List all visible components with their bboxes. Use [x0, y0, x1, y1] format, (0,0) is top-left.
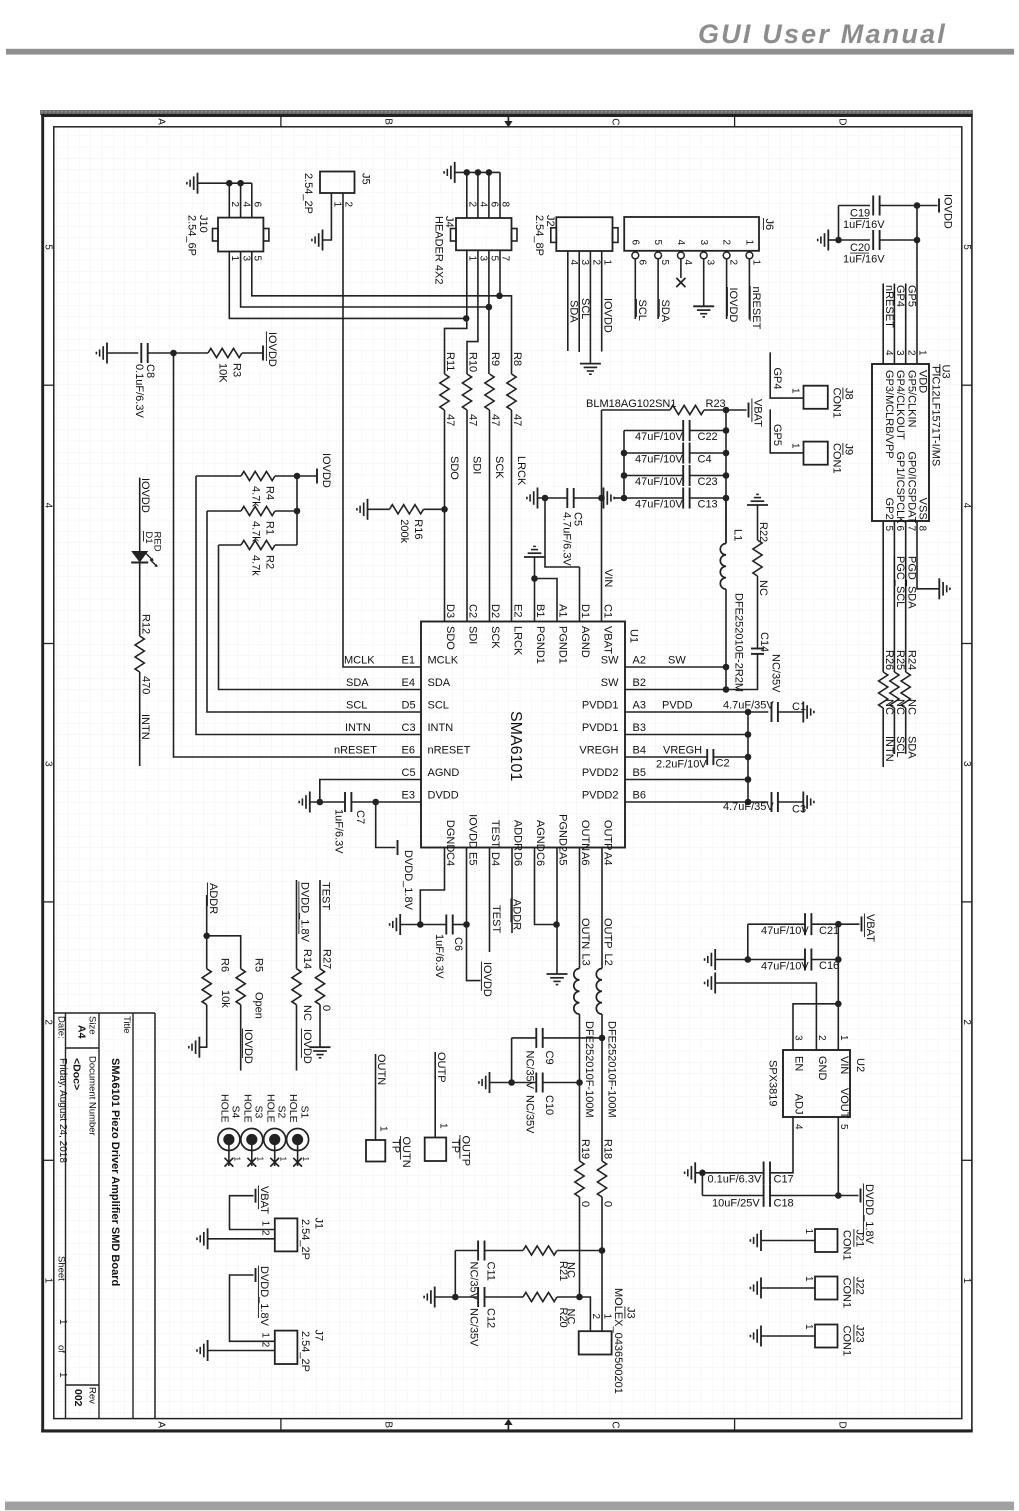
svg-text:OUTP: OUTP: [435, 1052, 447, 1083]
svg-text:DVDD_1.8V: DVDD_1.8V: [258, 1266, 270, 1327]
svg-text:2: 2: [816, 1035, 827, 1041]
svg-text:of: of: [56, 1345, 67, 1353]
ground at J23: [760, 1326, 762, 1347]
svg-text:B6: B6: [633, 790, 646, 802]
svg-text:1: 1: [803, 1229, 814, 1235]
svg-text:R9: R9: [489, 352, 501, 366]
svg-text:1: 1: [790, 443, 801, 449]
svg-text:B: B: [382, 1421, 393, 1428]
capacitor C6 1uF/6.3V: [420, 924, 446, 926]
wire R14 IOVDD stub: [296, 1005, 298, 1071]
resistor R19 0: [575, 1161, 584, 1197]
svg-text:3: 3: [961, 761, 972, 767]
svg-text:J10: J10: [197, 215, 209, 233]
background grid: [55, 128, 961, 1418]
svg-text:5: 5: [43, 244, 54, 250]
svg-text:C: C: [610, 1421, 621, 1428]
svg-text:PVDD: PVDD: [662, 700, 693, 712]
svg-text:NC: NC: [301, 1005, 313, 1021]
svg-text:INTN: INTN: [883, 736, 895, 762]
wire U3 pin2 GP5 stub: [905, 284, 907, 365]
mounting hole S1: [287, 1129, 309, 1151]
power flag DVDD_1.8V at VOUT: [838, 1195, 858, 1197]
svg-text:L3: L3: [580, 954, 592, 966]
svg-text:DVDD_1.8V: DVDD_1.8V: [402, 850, 414, 911]
ground right of C5: [603, 488, 605, 509]
wire nRESET net: [174, 353, 422, 757]
wire PGND2 A5 to ground: [556, 848, 558, 975]
svg-text:nRESET: nRESET: [334, 745, 377, 757]
svg-text:SDA: SDA: [659, 300, 671, 323]
svg-text:47: 47: [511, 414, 523, 426]
svg-text:1: 1: [57, 1319, 68, 1325]
svg-text:R14: R14: [301, 949, 313, 969]
svg-text:GP5/CLKIN: GP5/CLKIN: [905, 370, 917, 428]
wire IOVDD E5 stub: [467, 848, 481, 981]
wire U3 pin5 / R26: [882, 521, 884, 672]
svg-text:3: 3: [705, 260, 716, 266]
capacitor C23 47uF/10V: [624, 475, 683, 477]
svg-text:1: 1: [917, 350, 928, 356]
junctions C19/C20 right: [914, 202, 921, 209]
J6 pin circles: [632, 252, 639, 259]
resistor R23 BLM18AG102SN1: [602, 409, 671, 411]
svg-text:2.54_2P: 2.54_2P: [299, 1331, 311, 1372]
IC U3 PIC12LF1571T-I/MS body: [872, 364, 929, 521]
net stub TEST to R27: [319, 880, 321, 969]
svg-text:SDI: SDI: [470, 456, 482, 474]
svg-text:CON1: CON1: [831, 388, 843, 419]
connector J23 CON1 body: [815, 1325, 838, 1348]
svg-text:J1: J1: [313, 1218, 325, 1230]
svg-text:3: 3: [894, 350, 905, 356]
wire PVDD2 B5 row: [625, 779, 748, 781]
wire PVDD bus vertical: [747, 712, 749, 802]
wire EN tie: [793, 1004, 838, 1050]
svg-text:4: 4: [961, 503, 972, 509]
ground at J2: [580, 363, 601, 365]
svg-text:1: 1: [260, 1221, 271, 1227]
svg-text:MCLK: MCLK: [428, 655, 459, 667]
svg-text:47: 47: [444, 414, 456, 426]
wire DVDD_1.8V stub: [376, 802, 396, 848]
svg-text:C3: C3: [402, 722, 416, 734]
svg-text:C6: C6: [534, 852, 546, 866]
connector J8 CON1 body: [804, 386, 828, 409]
inductor L2 DFE252010F-100M: [596, 969, 602, 1015]
svg-text:GP1/ICSPCLK: GP1/ICSPCLK: [894, 451, 906, 524]
svg-text:GUI User Manual: GUI User Manual: [698, 19, 947, 49]
wire C9 row: [512, 1037, 537, 1039]
capacitor C14 NC/35V: [751, 648, 764, 650]
svg-text:002: 002: [72, 1389, 84, 1407]
wire U3 pin6 PGC_SCL / R25: [893, 521, 895, 672]
wire J4 pin1 to R11: [445, 250, 467, 374]
svg-text:OUTN: OUTN: [375, 1054, 387, 1085]
svg-text:C10: C10: [543, 1095, 555, 1115]
svg-text:2: 2: [43, 1019, 54, 1025]
capacitor C9 NC/35V: [535, 1028, 537, 1048]
ground at J10: [197, 173, 199, 194]
wire L1 to SW pins: [725, 589, 727, 689]
svg-text:IOVDD: IOVDD: [266, 332, 278, 367]
svg-text:GP4: GP4: [771, 368, 783, 390]
svg-text:R26: R26: [883, 650, 895, 670]
svg-text:1: 1: [744, 240, 755, 246]
svg-text:6: 6: [252, 202, 263, 208]
connector J21 CON1 body: [815, 1229, 838, 1252]
svg-text:CON1: CON1: [831, 443, 843, 474]
svg-text:B: B: [382, 118, 393, 125]
resistor R18 0: [597, 1161, 606, 1197]
junction C5 left / AGND: [542, 495, 549, 502]
resistor R21 NC: [523, 1246, 557, 1255]
svg-text:C5: C5: [402, 767, 416, 779]
svg-text:CON1: CON1: [841, 1278, 853, 1309]
ground at U2 GND: [714, 973, 716, 994]
power flag DVDD_1.8V: [397, 840, 399, 855]
svg-text:DFE252010F-100M: DFE252010F-100M: [606, 1021, 618, 1118]
sheet inner border frame: [54, 127, 962, 1419]
wires to U1 audio pins: [444, 410, 446, 622]
junction C12 row: [452, 1294, 459, 1301]
junction C16/VIN: [835, 956, 842, 963]
net stub DVDD_1.8V to R14: [296, 880, 298, 969]
wire SCL net: [207, 511, 421, 712]
wire SDA net: [219, 545, 422, 690]
ground at J22: [760, 1278, 762, 1299]
junction C9/OUTP: [599, 1035, 606, 1042]
svg-text:2.54_6P: 2.54_6P: [186, 215, 198, 256]
wire C17-C18 link: [701, 1173, 703, 1196]
svg-text:4: 4: [478, 202, 489, 208]
svg-text:VBAT: VBAT: [258, 1186, 270, 1214]
svg-text:SDI: SDI: [467, 626, 479, 644]
resistor R20 NC: [523, 1292, 557, 1301]
wire J2 pin2 to ground: [589, 251, 591, 364]
junction C6 row: [417, 921, 424, 928]
ground at R6: [198, 1037, 200, 1058]
svg-text:RED: RED: [152, 532, 163, 552]
svg-text:2: 2: [590, 260, 601, 266]
svg-text:6: 6: [894, 526, 905, 532]
svg-text:1: 1: [43, 1278, 54, 1284]
svg-text:IOVDD: IOVDD: [139, 478, 151, 513]
svg-text:A4: A4: [76, 1025, 88, 1039]
junction C10/OUTN: [576, 1079, 583, 1086]
mounting hole S3: [241, 1129, 263, 1151]
inductor L1 DFE252010E-2R2M: [720, 544, 726, 590]
svg-text:U1: U1: [628, 629, 640, 643]
wire J10 pin3 row: [241, 252, 489, 308]
svg-text:INTN: INTN: [139, 714, 151, 740]
svg-text:8: 8: [917, 526, 928, 532]
svg-text:10K: 10K: [217, 363, 229, 383]
wire J2 pin4 SDA: [567, 251, 569, 351]
svg-text:PVDD1: PVDD1: [582, 700, 619, 712]
svg-text:Document Number: Document Number: [87, 1056, 98, 1136]
junction R20/OUTN: [576, 1294, 583, 1301]
ground at J21: [760, 1230, 762, 1251]
mounting hole S2: [264, 1129, 286, 1151]
capacitor C1 4.7uF/35V: [771, 702, 773, 722]
svg-text:SDA: SDA: [428, 677, 451, 689]
svg-text:5: 5: [883, 526, 894, 532]
svg-text:EN: EN: [793, 1056, 805, 1071]
svg-text:DVDD_1.8V: DVDD_1.8V: [299, 882, 311, 943]
svg-text:47uF/10V: 47uF/10V: [635, 431, 683, 443]
svg-text:SDO: SDO: [448, 456, 460, 480]
svg-text:2: 2: [961, 1019, 972, 1025]
svg-text:Friday, August 24, 2018: Friday, August 24, 2018: [57, 1058, 68, 1163]
resistor R12 470: [135, 636, 144, 672]
wire U1 PGND1 pins to ground: [534, 557, 536, 622]
junction VOUT/C18: [835, 1192, 842, 1199]
wire MCLK net: [343, 193, 421, 667]
svg-text:47uF/10V: 47uF/10V: [635, 499, 683, 511]
svg-text:C17: C17: [774, 1173, 794, 1185]
mounting hole S4: [218, 1129, 240, 1151]
ground at J6: [693, 305, 714, 307]
svg-text:C1: C1: [602, 604, 614, 618]
svg-text:SDA: SDA: [567, 300, 579, 323]
power flag IOVDD at R3: [262, 346, 264, 361]
svg-text:J3: J3: [625, 1307, 637, 1319]
svg-text:NC/35V: NC/35V: [467, 1308, 479, 1347]
wire PVDD A3 row: [625, 711, 768, 713]
svg-text:2.54_2P: 2.54_2P: [299, 1219, 311, 1260]
junction C17 left: [699, 1170, 706, 1177]
svg-text:Title: Title: [121, 1016, 132, 1034]
svg-text:GP4: GP4: [894, 285, 906, 307]
svg-text:3: 3: [579, 260, 590, 266]
svg-text:IOVDD: IOVDD: [320, 453, 332, 488]
ground at C8: [106, 343, 108, 364]
svg-text:DGND: DGND: [444, 820, 456, 852]
capacitor C16 47uF/10V: [748, 959, 805, 961]
svg-text:TEST: TEST: [489, 820, 501, 848]
svg-text:2.2uF/10V: 2.2uF/10V: [656, 759, 707, 771]
svg-text:1: 1: [601, 1314, 612, 1320]
testpoint OUTP TP body: [425, 1138, 447, 1162]
svg-text:47uF/10V: 47uF/10V: [635, 454, 683, 466]
svg-text:R3: R3: [231, 363, 243, 377]
svg-text:B2: B2: [633, 677, 646, 689]
wire DVDD row with C7: [310, 801, 345, 803]
wire J10 pin5 row: [252, 252, 500, 296]
wire U3 pin7 PGD_SDA / R24: [905, 521, 907, 672]
svg-text:2: 2: [721, 240, 732, 246]
resistor R6 10k: [206, 936, 208, 969]
svg-text:R6: R6: [219, 958, 231, 972]
svg-text:TEST: TEST: [490, 905, 502, 933]
svg-text:R25: R25: [894, 650, 906, 670]
wire J2 pin3 SCL: [578, 251, 580, 352]
svg-text:NC: NC: [905, 699, 917, 715]
svg-text:7: 7: [905, 526, 916, 532]
svg-text:0: 0: [602, 1201, 614, 1207]
svg-text:TP: TP: [449, 1139, 461, 1153]
svg-text:GND: GND: [816, 1056, 828, 1081]
svg-text:<Doc>: <Doc>: [71, 1058, 83, 1090]
svg-text:C20: C20: [850, 242, 870, 254]
svg-text:2.54_8P: 2.54_8P: [533, 215, 545, 256]
ground at C16: [714, 949, 716, 970]
resistor R14 NC: [292, 969, 301, 1005]
IC U2 SPX3819 body: [783, 1050, 850, 1117]
svg-text:LRCK: LRCK: [512, 626, 524, 656]
svg-text:C2: C2: [716, 758, 730, 770]
svg-text:VBAT: VBAT: [864, 914, 876, 942]
svg-text:OUTN: OUTN: [579, 820, 591, 851]
svg-text:GP3/MCLRB/VPP: GP3/MCLRB/VPP: [883, 370, 895, 459]
zone ticks and labels: [280, 116, 282, 127]
svg-text:SCL: SCL: [894, 736, 906, 757]
wire VBAT to L1: [725, 498, 727, 544]
svg-text:C14: C14: [758, 632, 770, 652]
svg-text:C4: C4: [444, 852, 456, 866]
svg-text:AGND: AGND: [534, 820, 546, 852]
svg-text:IOVDD: IOVDD: [242, 1029, 254, 1064]
gnd bracket for bulk caps: [623, 431, 625, 499]
svg-text:Sheet: Sheet: [56, 1256, 67, 1281]
svg-text:4.7k: 4.7k: [250, 555, 262, 576]
IC U1 SMA6101 body: [421, 622, 625, 848]
svg-text:5: 5: [659, 260, 670, 266]
svg-text:IOVDD: IOVDD: [467, 814, 479, 849]
wire TEST D4 stub: [489, 848, 491, 953]
wire J10 top pins: [198, 182, 252, 184]
svg-text:10k: 10k: [219, 990, 231, 1008]
svg-text:J21: J21: [854, 1230, 866, 1248]
capacitor C20 1uF/16V: [839, 239, 871, 241]
wire OUTP A4: [601, 848, 603, 969]
svg-text:3: 3: [478, 256, 489, 262]
wire INTN net: [196, 476, 421, 735]
svg-text:7: 7: [500, 256, 511, 262]
svg-text:47uF/10V: 47uF/10V: [761, 925, 809, 937]
svg-text:3: 3: [43, 761, 54, 767]
svg-text:47: 47: [467, 414, 479, 426]
svg-text:D4: D4: [489, 852, 501, 866]
ground at C20: [827, 230, 829, 251]
wire C21-C16 link: [747, 924, 749, 959]
svg-text:VIN: VIN: [602, 569, 614, 587]
ground at C5 left: [537, 488, 539, 509]
svg-text:IOVDD: IOVDD: [942, 194, 954, 229]
net stub GP5: [770, 409, 803, 453]
svg-text:D3: D3: [444, 604, 456, 618]
wire VOUT: [837, 1117, 839, 1196]
svg-text:A5: A5: [557, 852, 569, 865]
svg-text:TP: TP: [390, 1139, 402, 1153]
svg-text:1: 1: [278, 1157, 288, 1162]
wire VIN vertical: [601, 410, 603, 622]
wire R5 IOVDD stub: [240, 1005, 242, 1071]
resistor R2 4.7k: [219, 544, 242, 546]
svg-text:1: 1: [260, 1332, 271, 1338]
ground at C3: [802, 792, 804, 813]
capacitor C19 1uF/16V: [839, 205, 871, 207]
capacitor C2 2.2uF/10V: [706, 749, 708, 765]
wire IOVDD node to U3 VDD: [917, 205, 938, 207]
svg-text:0: 0: [579, 1201, 591, 1207]
title block: [55, 1012, 156, 1014]
svg-text:E3: E3: [402, 790, 415, 802]
svg-text:R1: R1: [264, 521, 276, 535]
wire J6 pin6 SCL: [634, 259, 636, 319]
svg-text:HOLE: HOLE: [241, 1094, 253, 1123]
svg-text:R10: R10: [467, 352, 479, 372]
svg-text:SCL: SCL: [636, 300, 648, 321]
svg-text:L1: L1: [732, 529, 744, 541]
wire AGND C6 pin: [535, 848, 557, 925]
svg-text:4: 4: [568, 260, 579, 266]
wire J6 pin1 nRESET: [748, 259, 750, 320]
connector J22 CON1 body: [815, 1277, 838, 1300]
svg-text:R18: R18: [602, 1139, 614, 1159]
svg-text:J9: J9: [843, 444, 855, 456]
junction C8/R3: [170, 350, 177, 357]
svg-text:C9: C9: [543, 1051, 555, 1065]
svg-text:E5: E5: [467, 852, 479, 865]
svg-text:1: 1: [378, 1126, 389, 1132]
connector J9 CON1 body: [804, 442, 828, 465]
svg-text:MOLEX_0436500201: MOLEX_0436500201: [612, 1288, 624, 1394]
svg-text:R11: R11: [444, 352, 456, 371]
svg-text:NC: NC: [757, 580, 769, 596]
svg-text:SCL: SCL: [579, 298, 591, 319]
svg-text:GP2: GP2: [883, 498, 895, 520]
connector J6 body: [624, 217, 759, 251]
svg-text:C: C: [610, 118, 621, 125]
svg-text:D5: D5: [402, 700, 416, 712]
svg-text:SCL: SCL: [346, 700, 367, 712]
svg-text:PGND2: PGND2: [557, 814, 569, 852]
capacitor C22 47uF/10V: [624, 430, 683, 432]
resistor R8 47: [507, 374, 516, 410]
svg-text:SMA6101: SMA6101: [507, 711, 524, 781]
svg-text:S2: S2: [276, 1106, 288, 1119]
wire VIN down to U2: [837, 924, 839, 1050]
svg-text:10uF/25V: 10uF/25V: [712, 1197, 760, 1209]
svg-text:1uF/16V: 1uF/16V: [843, 219, 885, 231]
svg-text:0.1uF/6.3V: 0.1uF/6.3V: [708, 1173, 762, 1185]
wire J4 pin3 to R10: [467, 250, 478, 374]
svg-text:NC: NC: [894, 699, 906, 715]
svg-text:B3: B3: [633, 722, 646, 734]
svg-text:IOVDD: IOVDD: [727, 288, 739, 323]
svg-text:U2: U2: [854, 1058, 866, 1072]
svg-text:NC: NC: [565, 1262, 577, 1278]
capacitor C4 47uF/10V: [624, 452, 683, 454]
svg-text:IOVDD: IOVDD: [481, 962, 493, 997]
svg-text:NC: NC: [883, 699, 895, 715]
capacitor C11 NC/35V: [477, 1241, 479, 1261]
svg-text:nRESET: nRESET: [883, 285, 895, 328]
svg-text:8: 8: [500, 202, 511, 208]
svg-text:A3: A3: [633, 700, 646, 712]
svg-text:OUTP: OUTP: [602, 918, 614, 949]
svg-text:2: 2: [260, 1230, 271, 1236]
svg-text:47: 47: [489, 414, 501, 426]
sheet outer border frame: [41, 114, 972, 117]
wire R6 to ground: [199, 1005, 206, 1047]
svg-text:A: A: [155, 118, 166, 125]
svg-text:Open: Open: [253, 992, 265, 1019]
wire PVDD2 B6 row: [625, 801, 768, 803]
wire PVDD1 B3 row: [625, 734, 748, 736]
